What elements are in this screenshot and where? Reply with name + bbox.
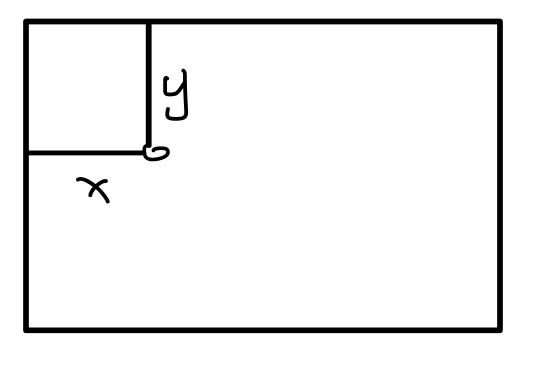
inner vertical line (y side) — [146, 20, 152, 147]
junction loop scribble — [144, 146, 168, 160]
outer rectangle — [26, 22, 500, 331]
inner horizontal line (x side) — [24, 150, 144, 155]
label x (slash stroke) — [90, 181, 106, 195]
label y (descender stroke) — [167, 71, 186, 119]
label x (backslash stroke) — [78, 179, 108, 202]
label y (u-stroke) — [165, 78, 184, 95]
